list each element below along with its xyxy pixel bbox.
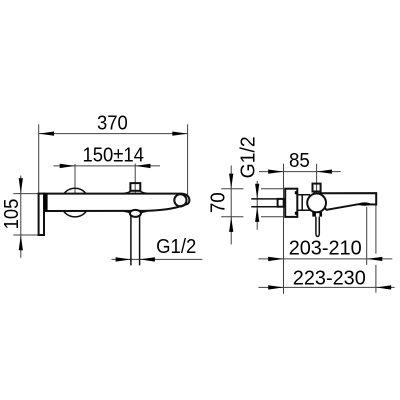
dim 85 arrow right — [317, 170, 332, 174]
dim 85 arrow left — [268, 170, 283, 174]
svg-text:203-210: 203-210 — [289, 238, 362, 260]
dim 370 dimension line — [39, 133, 188, 135]
svg-text:223-230: 223-230 — [293, 268, 366, 290]
dim 105 dimension line — [20, 176, 22, 258]
spout tip ring — [174, 194, 186, 206]
dim G1/2 (side) arrow top — [255, 184, 259, 199]
wall line — [283, 164, 285, 294]
dim 203-210 dimension line — [258, 258, 392, 260]
dim 150±14 dimension line — [54, 165, 161, 167]
dim 70 extension line bottom — [221, 216, 283, 218]
label G1/2 leader line — [112, 258, 203, 260]
inlet pipe below body — [130, 214, 132, 265]
label G1/2 arrow left — [116, 257, 131, 261]
svg-text:105: 105 — [1, 199, 23, 230]
dim 203-210 arrow right — [367, 257, 382, 261]
svg-text:150±14: 150±14 — [82, 145, 144, 167]
flange tab bottom — [295, 212, 298, 215]
dim G1/2 (side) dimension line — [256, 181, 258, 230]
lever collar left — [312, 212, 316, 217]
dim 150±14 arrow left — [60, 164, 75, 168]
escutcheon circle — [61, 188, 90, 217]
inlet pipe behind wall — [251, 199, 277, 207]
dim 105 arrow top — [19, 178, 23, 193]
flange tab top — [295, 191, 298, 194]
dim 370 extension line right — [187, 124, 189, 197]
dim 203-210 arrow left — [268, 257, 283, 261]
body (spout) outline — [44, 194, 189, 211]
dim 150±14 arrow right — [135, 164, 150, 168]
wall flange plate — [39, 194, 44, 235]
spout (side) — [321, 193, 376, 210]
valve knob flare top — [124, 190, 147, 193]
svg-text:G1/2: G1/2 — [237, 136, 259, 178]
label G1/2 arrow right — [140, 257, 155, 261]
pipe coupling — [278, 199, 284, 207]
dim 150±14 extension line right — [134, 164, 136, 212]
dim 70 arrow bottom — [229, 217, 233, 232]
svg-text:370: 370 — [97, 113, 128, 135]
dim 105 arrow bottom — [19, 235, 23, 250]
dim 105 extension line bottom — [13, 234, 38, 236]
dim 85 dimension line — [259, 171, 341, 173]
dim 370 arrow left — [39, 132, 54, 136]
dim 150±14 extension line left — [74, 164, 76, 203]
valve body joint line — [301, 195, 303, 211]
valve body (side) — [297, 195, 310, 211]
dim 370 arrow right — [172, 132, 187, 136]
valve knob square — [130, 183, 140, 191]
svg-text:70: 70 — [207, 192, 229, 213]
dim 223-230 arrow left — [268, 285, 283, 289]
svg-text:85: 85 — [289, 150, 310, 172]
svg-text:G1/2: G1/2 — [156, 236, 196, 258]
dim 223-230 extension line (spout tip) — [375, 205, 377, 292]
dim 203-210 extension line (aerator) — [366, 207, 368, 265]
knob square (side) — [313, 184, 321, 192]
dim G1/2 (side) arrow bottom — [255, 207, 259, 222]
body left end cap — [44, 194, 48, 212]
dim 223-230 arrow right — [376, 285, 391, 289]
knob neck (side) — [314, 192, 320, 195]
cartridge circle — [307, 194, 326, 213]
dim 70 dimension line — [230, 166, 232, 245]
bottom dome flare — [124, 211, 147, 214]
lever handle — [316, 217, 319, 237]
dim 70 arrow top — [229, 174, 233, 189]
wall flange (side) — [285, 189, 297, 217]
dim 105 extension line top — [13, 193, 43, 195]
dim 370 extension line left — [38, 124, 40, 193]
lever collar right — [319, 212, 322, 217]
dim 85 extension line right — [316, 164, 318, 191]
dim 70 extension line top — [221, 188, 283, 190]
dim 223-230 dimension line — [258, 286, 394, 288]
bottom dome ellipse — [130, 210, 141, 217]
aerator bump — [359, 202, 371, 205]
